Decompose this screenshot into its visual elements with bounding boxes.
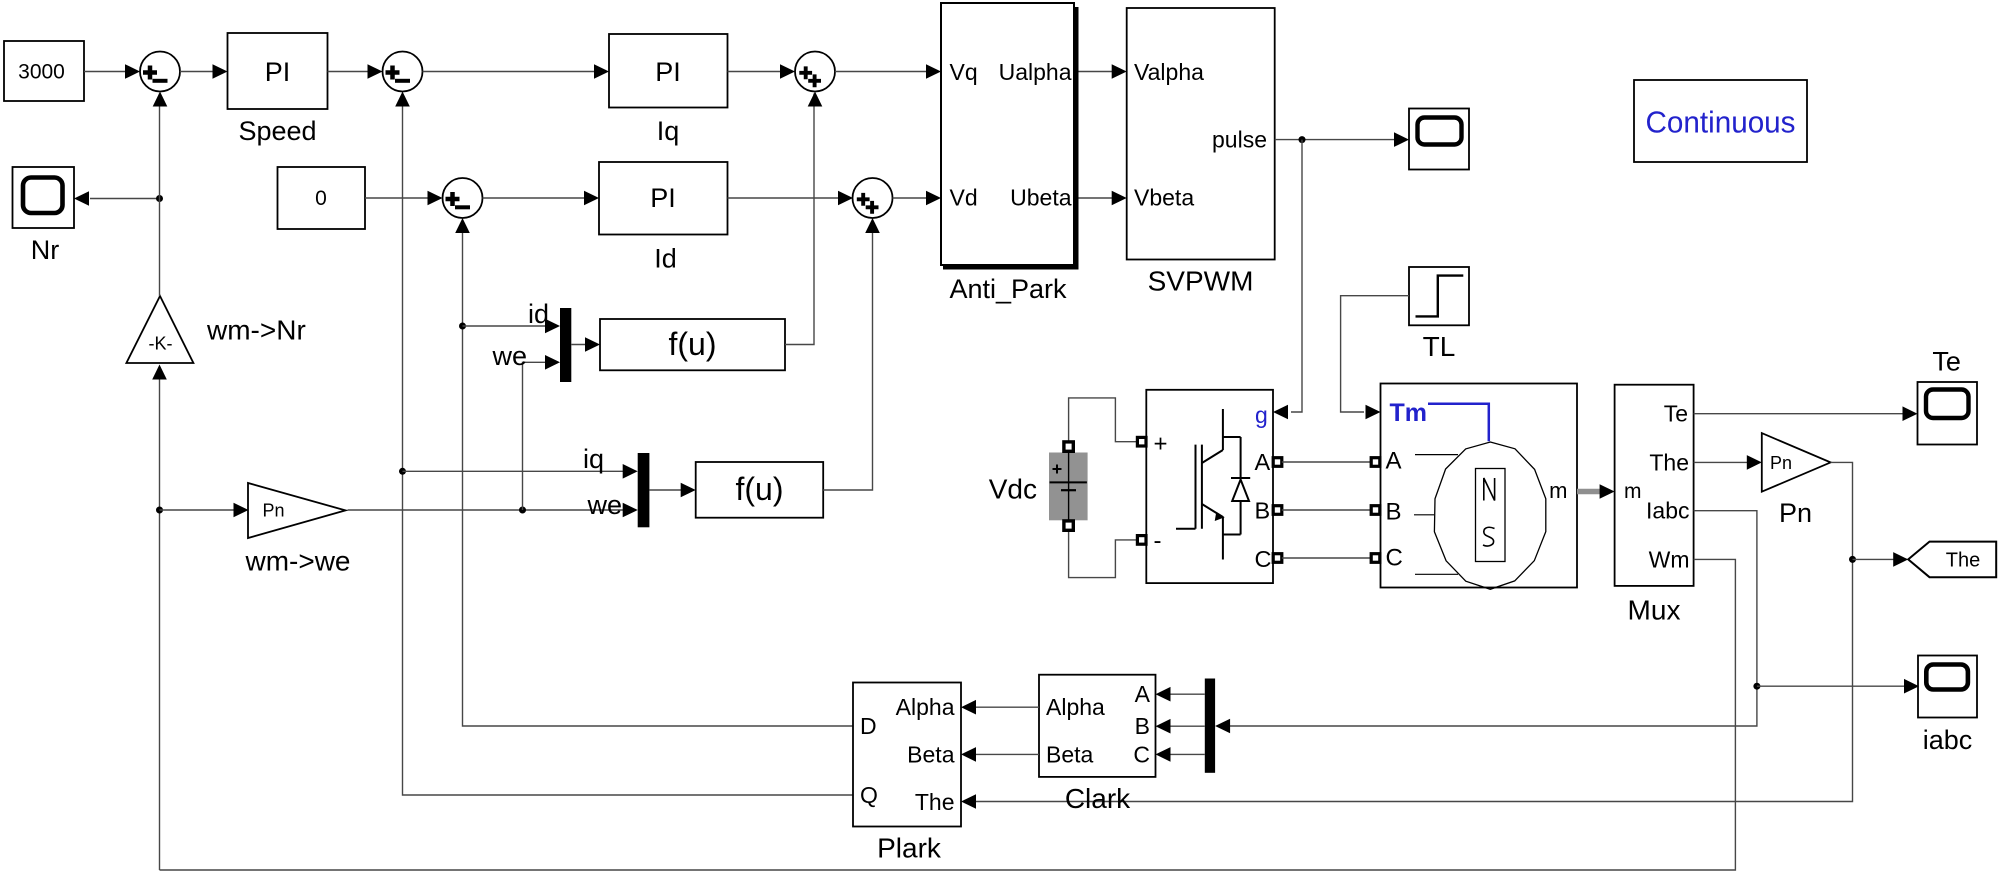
svg-text:B: B xyxy=(1386,499,1402,526)
junction iabc scope tap xyxy=(1753,683,1760,690)
svg-text:we: we xyxy=(586,490,622,520)
port pad motor B xyxy=(1371,506,1380,515)
svg-text:B: B xyxy=(1135,713,1150,739)
svg-text:Clark: Clark xyxy=(1065,783,1131,814)
block fu1 xyxy=(600,319,785,370)
wire TL to motor Tm xyxy=(1341,296,1409,420)
svg-text:C: C xyxy=(1133,741,1150,767)
junction The xyxy=(1849,556,1856,563)
wire fu1 to sum3 xyxy=(785,92,822,345)
svg-text:m: m xyxy=(1624,480,1642,503)
sum junction sum3 plus plus xyxy=(795,52,835,92)
svg-text:PI: PI xyxy=(655,57,681,87)
letter S xyxy=(1483,527,1495,546)
wire Mux The to Pn gain xyxy=(1694,455,1762,470)
wire Ubeta to Vbeta xyxy=(1079,191,1127,206)
svg-text:The: The xyxy=(1946,549,1980,571)
wire gainK output to sum1 xyxy=(153,92,168,297)
svg-text:Valpha: Valpha xyxy=(1134,59,1204,85)
svg-text:Speed: Speed xyxy=(238,116,316,146)
scope pulse xyxy=(1409,109,1469,170)
svg-text:+: + xyxy=(1154,431,1168,458)
wire sum3 to AntiPark Vq xyxy=(835,64,941,79)
block TL step xyxy=(1409,267,1469,325)
svg-text:f(u): f(u) xyxy=(736,471,784,507)
wire junction to Nr scope xyxy=(74,191,163,206)
wire mux1 to fu1 xyxy=(571,337,600,352)
svg-text:wm->we: wm->we xyxy=(244,546,350,577)
svg-text:The: The xyxy=(915,789,955,815)
scope iabc xyxy=(1918,656,1977,718)
block PI Id xyxy=(599,162,728,235)
svg-text:Pn: Pn xyxy=(263,501,285,521)
junction Pn tap xyxy=(156,507,163,514)
wire sum5 to AntiPark Vd xyxy=(893,191,942,206)
wire id to mux1 xyxy=(463,319,561,334)
svg-text:Ualpha: Ualpha xyxy=(999,59,1072,85)
gain wm to Nr xyxy=(126,296,193,363)
wire demux to Clark C xyxy=(1156,747,1205,762)
svg-text:we: we xyxy=(491,341,527,371)
wire Plark Q to sum2 xyxy=(395,92,853,796)
wire inverter B to motor B xyxy=(1282,509,1372,511)
svg-text:-: - xyxy=(1154,528,1162,555)
svg-text:Iq: Iq xyxy=(657,116,680,146)
wire junction to The tag xyxy=(1853,552,1909,567)
svg-text:3000: 3000 xyxy=(18,61,65,84)
svg-text:Tm: Tm xyxy=(1390,399,1428,427)
svg-text:Q: Q xyxy=(860,782,878,808)
sum junction sum5 plus plus xyxy=(853,178,893,218)
sum junction sum1 xyxy=(140,52,180,92)
svg-text:D: D xyxy=(860,713,877,739)
svg-text:wm->Nr: wm->Nr xyxy=(206,315,306,346)
svg-text:Vbeta: Vbeta xyxy=(1134,185,1194,211)
block SVPWM xyxy=(1127,8,1275,260)
svg-text:Mux: Mux xyxy=(1628,595,1681,626)
svg-text:Anti_Park: Anti_Park xyxy=(949,274,1067,304)
svg-text:f(u): f(u) xyxy=(669,326,717,362)
svg-text:Ubeta: Ubeta xyxy=(1010,185,1072,211)
wire m bus to Mux xyxy=(1577,484,1615,499)
svg-text:0: 0 xyxy=(315,187,327,210)
svg-text:C: C xyxy=(1386,545,1403,572)
port pad battery top xyxy=(1064,442,1073,451)
svg-text:C: C xyxy=(1255,546,1272,572)
svg-text:Id: Id xyxy=(654,244,677,274)
wire fu2 to sum5 xyxy=(823,218,880,490)
svg-text:Vdc: Vdc xyxy=(989,474,1037,505)
svg-text:Plark: Plark xyxy=(877,833,942,864)
gain Pn wm to we xyxy=(248,483,346,538)
port pad battery bottom xyxy=(1064,521,1073,530)
wire Pn output to mux2 we xyxy=(348,503,638,518)
svg-text:SVPWM: SVPWM xyxy=(1148,266,1254,297)
block Mux xyxy=(1615,385,1694,586)
svg-text:Pn: Pn xyxy=(1779,498,1812,528)
wire 3000 to sum1 xyxy=(84,64,140,79)
wire Wm feedback up to gainK xyxy=(152,365,167,871)
port pad inverter plus xyxy=(1137,437,1146,446)
block AntiPark xyxy=(941,3,1077,268)
svg-text:Alpha: Alpha xyxy=(896,694,955,720)
scope Nr xyxy=(13,167,75,228)
block Clark xyxy=(1039,675,1156,777)
svg-text:A: A xyxy=(1135,681,1151,707)
wire junction to iabc scope xyxy=(1757,679,1919,694)
junction we tap xyxy=(519,507,526,514)
junction pulse xyxy=(1299,136,1306,143)
svg-text:Vq: Vq xyxy=(950,59,978,85)
wire mux2 to fu2 xyxy=(649,483,695,498)
svg-text:Wm: Wm xyxy=(1649,546,1690,572)
wire we up to mux1 xyxy=(523,355,561,510)
letter N xyxy=(1484,478,1495,501)
wire sum4 to Id PI xyxy=(483,191,600,206)
wire Mux Iabc down to demux xyxy=(1215,511,1757,734)
wire Mux Wm feedback bottom xyxy=(160,559,1736,870)
wire sum2 to Iq PI xyxy=(423,64,610,79)
svg-text:Iabc: Iabc xyxy=(1646,498,1689,524)
sum junction sum2 xyxy=(383,52,423,92)
magnet rect xyxy=(1476,469,1506,562)
source Vdc battery xyxy=(1049,453,1088,521)
wire pulse to inverter g xyxy=(1273,140,1302,420)
svg-text:A: A xyxy=(1386,448,1402,475)
svg-text:iabc: iabc xyxy=(1923,725,1973,755)
svg-text:pulse: pulse xyxy=(1212,127,1267,153)
junction id tap xyxy=(459,323,466,330)
block PI Iq xyxy=(609,34,728,108)
scope Te xyxy=(1918,382,1978,445)
sum junction sum4 xyxy=(443,178,483,218)
wire pulse to scope xyxy=(1275,132,1409,147)
gain Pn2 xyxy=(1762,433,1831,492)
svg-text:Nr: Nr xyxy=(31,235,60,265)
wire Clark Alpha to Plark Alpha xyxy=(961,700,1039,715)
wire Speed to sum2 xyxy=(328,64,383,79)
svg-text:Alpha: Alpha xyxy=(1046,694,1105,720)
mux2 bar xyxy=(638,453,650,527)
wire sum1 to Speed PI xyxy=(180,64,228,79)
goto tag The xyxy=(1908,542,1996,578)
svg-text:Beta: Beta xyxy=(1046,741,1094,767)
wire inverter C to motor C xyxy=(1282,557,1372,559)
mux1 bar xyxy=(560,308,571,382)
wire demux to Clark A xyxy=(1156,687,1205,702)
demux bar xyxy=(1205,679,1215,773)
svg-text:Pn: Pn xyxy=(1770,453,1792,473)
wire Ualpha to Valpha xyxy=(1079,64,1127,79)
block Plark xyxy=(853,683,961,827)
port pad inverter minus xyxy=(1137,536,1146,545)
block inverter bridge xyxy=(1146,390,1273,583)
junction iq tap xyxy=(399,468,406,475)
port pad inverter A xyxy=(1273,458,1282,467)
block PMSM motor xyxy=(1381,384,1578,590)
wire inverter A to motor A xyxy=(1282,461,1372,463)
svg-text:iq: iq xyxy=(583,444,604,474)
svg-text:Continuous: Continuous xyxy=(1646,105,1796,140)
icon IGBT diode xyxy=(1176,409,1250,560)
rotor oval xyxy=(1434,442,1545,589)
svg-text:The: The xyxy=(1649,449,1689,475)
wire iq to mux2 xyxy=(403,464,638,479)
svg-text:-K-: -K- xyxy=(149,334,173,354)
wire battery plus loop xyxy=(1069,398,1137,442)
wire Pn2 to The tag and Plark The xyxy=(961,462,1853,808)
svg-text:Vd: Vd xyxy=(950,185,978,211)
wire Id PI to sum5 xyxy=(728,191,854,206)
wire Plark D to sum4 xyxy=(455,218,853,726)
block fu2 xyxy=(696,462,824,518)
svg-text:g: g xyxy=(1255,402,1268,428)
svg-text:id: id xyxy=(528,299,549,329)
svg-text:Te: Te xyxy=(1664,401,1688,427)
port pad inverter B xyxy=(1273,506,1282,515)
svg-text:PI: PI xyxy=(265,57,291,87)
port pad inverter C xyxy=(1273,554,1282,563)
wire 0 to sum4 xyxy=(365,191,443,206)
wire Mux Te to scope Te xyxy=(1694,406,1918,421)
constant 3000 xyxy=(4,41,84,101)
wire to Pn gain xyxy=(160,503,249,518)
wire battery minus loop xyxy=(1069,530,1137,578)
block PI Speed xyxy=(228,33,328,109)
port pad motor C xyxy=(1371,554,1380,563)
svg-text:Beta: Beta xyxy=(907,741,955,767)
svg-text:B: B xyxy=(1255,497,1271,523)
svg-text:PI: PI xyxy=(650,183,676,213)
annotation Continuous xyxy=(1634,80,1807,162)
svg-text:A: A xyxy=(1255,449,1271,475)
svg-text:m: m xyxy=(1549,478,1567,503)
svg-text:TL: TL xyxy=(1423,331,1456,362)
port pad motor A xyxy=(1371,458,1380,467)
wire demux to Clark B xyxy=(1156,719,1205,734)
wire Clark Beta to Plark Beta xyxy=(961,747,1039,762)
constant 0 xyxy=(278,167,366,229)
svg-text:Te: Te xyxy=(1932,347,1961,377)
wire Iq PI to sum3 xyxy=(728,64,796,79)
